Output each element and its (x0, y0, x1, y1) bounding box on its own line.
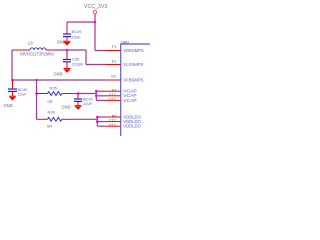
wire VCC vertical (94, 14, 96, 50)
capacitor C35 (63, 50, 84, 68)
svg-text:E1: E1 (112, 59, 117, 63)
svg-text:GND: GND (62, 105, 71, 110)
inductor L8 (15, 48, 55, 57)
node junction VCAP row2 (95, 95, 98, 98)
wire R35 output (71, 93, 96, 95)
ground for BC39 (57, 40, 71, 46)
node junction R35 tap (35, 92, 38, 95)
svg-text:VDDSMPS: VDDSMPS (123, 48, 143, 53)
svg-text:220pF: 220pF (72, 61, 84, 66)
wire VDDLDO row2 (97, 121, 105, 123)
wire feedback vertical (36, 80, 38, 119)
svg-text:A7: A7 (112, 88, 117, 92)
capacitor BC40 (8, 80, 28, 96)
wire VDDLDO row1 (97, 116, 105, 118)
wire VFBSMPS horizontal to pin G2 (12, 79, 107, 81)
ground for BC41 (62, 105, 82, 110)
ground for C35 (54, 69, 71, 77)
svg-text:GND: GND (4, 103, 13, 108)
power flag VCC_3V3 circle (93, 11, 96, 14)
node junction C35 tap (66, 49, 69, 52)
svg-text:L8: L8 (28, 41, 33, 46)
IC U6D box (121, 40, 150, 137)
svg-text:VFBSMPS: VFBSMPS (123, 78, 143, 83)
svg-text:22uF: 22uF (83, 101, 93, 106)
svg-text:NRH3012T2R2MNV: NRH3012T2R2MNV (20, 51, 55, 56)
wire corner down (85, 50, 87, 65)
svg-text:10uF: 10uF (72, 34, 82, 39)
node junction BC40 tap (11, 79, 14, 82)
svg-text:GND: GND (57, 40, 66, 45)
svg-text:R35: R35 (50, 85, 58, 90)
resistor R36 (37, 110, 72, 129)
node junction feedback vertical tap (35, 79, 38, 82)
capacitor BC41 (74, 94, 94, 107)
pin E1 stub (106, 64, 121, 66)
wire to BC39 (67, 21, 95, 23)
wire R36 output (71, 118, 97, 120)
svg-text:R36: R36 (48, 110, 56, 115)
pin U17 stub (105, 99, 121, 101)
pin C16 stub (105, 121, 121, 123)
node junction VCAP row1 (95, 90, 98, 93)
pin A6 stub (105, 116, 121, 118)
resistor R35 (37, 85, 72, 104)
pin G2 stub (107, 79, 121, 81)
svg-text:0R: 0R (47, 124, 52, 129)
svg-text:U12: U12 (109, 123, 116, 127)
svg-text:G2: G2 (111, 75, 116, 79)
pin F1 stub (106, 50, 121, 52)
capacitor BC39 (63, 22, 82, 41)
pin C17 stub (105, 95, 121, 97)
wire VCAP row1 (96, 90, 105, 92)
svg-text:0R: 0R (48, 99, 53, 104)
wire VDDLDO vertical (96, 117, 98, 126)
svg-text:VDDLDO: VDDLDO (123, 124, 141, 129)
ground for BC40 (4, 96, 17, 108)
wire VDDLDO row3 (97, 125, 105, 127)
node junction BC41 tap (77, 92, 80, 95)
wire inductor left (12, 49, 15, 51)
node junction VDDLDO mid (96, 120, 99, 123)
svg-text:VCAP: VCAP (123, 98, 136, 103)
node junction VCC/BC39 (94, 21, 97, 24)
svg-text:GND: GND (54, 72, 63, 77)
wire VCAP vertical (95, 91, 97, 100)
node junction VDDLDO top (96, 116, 99, 119)
wire to pin E1 (86, 64, 107, 66)
svg-text:VLXSMPS: VLXSMPS (123, 62, 143, 67)
pin U15 stub (105, 125, 121, 127)
wire VCAP row3 (96, 99, 105, 101)
svg-text:22uF: 22uF (18, 91, 28, 96)
svg-text:VCC_3V3: VCC_3V3 (84, 4, 108, 10)
wire inductor right to corner (55, 49, 86, 51)
wire VCAP row2 (96, 95, 105, 97)
svg-text:F1: F1 (112, 45, 116, 49)
pin A7 stub (105, 90, 121, 92)
wire VCC to pin F1 (95, 50, 107, 52)
wire feedback left drop (11, 50, 13, 80)
